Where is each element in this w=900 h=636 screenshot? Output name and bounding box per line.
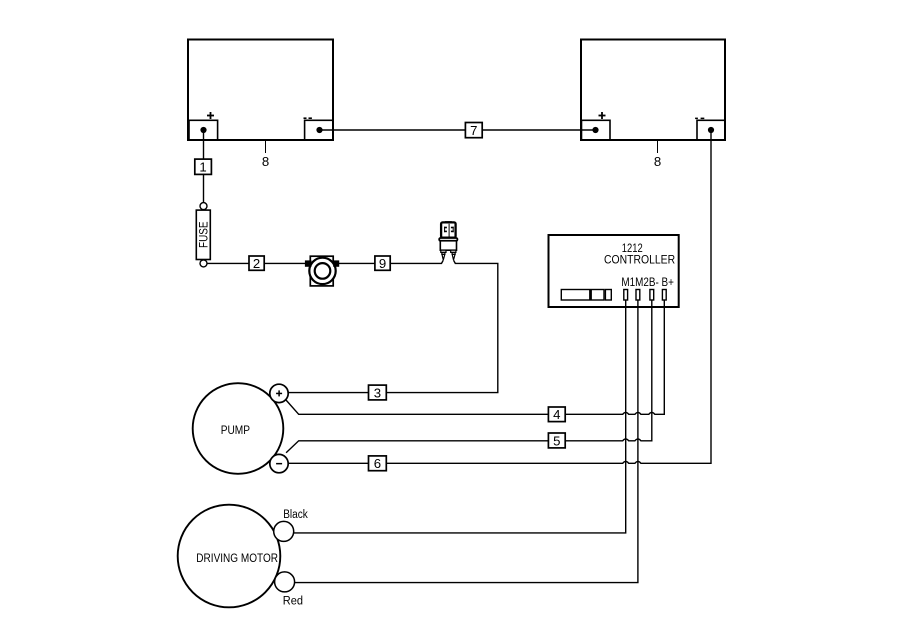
- svg-text:CONTROLLER: CONTROLLER: [604, 252, 675, 266]
- svg-text:Red: Red: [283, 596, 303, 608]
- svg-text:Black: Black: [283, 509, 308, 521]
- svg-text:2: 2: [253, 256, 260, 271]
- svg-text:7: 7: [470, 123, 477, 138]
- svg-text:5: 5: [553, 433, 560, 448]
- svg-text:PUMP: PUMP: [221, 423, 250, 437]
- svg-text:1: 1: [199, 160, 206, 175]
- svg-text:FUSE: FUSE: [197, 221, 211, 248]
- svg-text:8: 8: [654, 154, 661, 169]
- svg-text:6: 6: [374, 456, 381, 471]
- svg-text:M1M2B- B+: M1M2B- B+: [621, 277, 674, 289]
- svg-text:DRIVING MOTOR: DRIVING MOTOR: [196, 551, 278, 565]
- svg-text:8: 8: [262, 154, 269, 169]
- svg-text:4: 4: [553, 407, 560, 422]
- svg-text:9: 9: [379, 256, 386, 271]
- svg-text:3: 3: [374, 385, 381, 400]
